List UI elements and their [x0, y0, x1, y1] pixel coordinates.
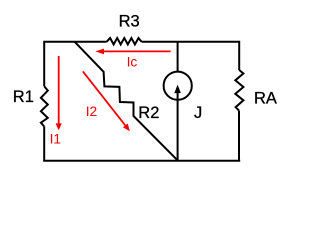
- wire: top left segment: [44, 41, 106, 43]
- arrow I1 (red, pointing down): [58, 56, 60, 124]
- wire: top right segment: [142, 41, 240, 43]
- svg-text:R3: R3: [119, 12, 140, 30]
- arrow I2 (red, diagonal pointing down-right): [83, 71, 125, 125]
- svg-text:R1: R1: [13, 88, 34, 106]
- wire: diagonal upper + resistor R2 staircase + diagonal lower: [75, 42, 178, 161]
- arrow Ic (red, pointing left): [104, 50, 171, 52]
- wire: current source branch (vertical): [177, 42, 179, 161]
- svg-text:I2: I2: [86, 104, 98, 119]
- svg-text:J: J: [194, 104, 202, 122]
- resistor R3 zigzag: [107, 38, 142, 44]
- svg-text:Ic: Ic: [127, 54, 138, 69]
- svg-text:I1: I1: [50, 132, 62, 147]
- svg-text:R2: R2: [138, 104, 159, 122]
- wire: right upper segment: [238, 41, 240, 70]
- current source J inner arrow: [177, 92, 179, 100]
- wire: left lower segment: [43, 127, 45, 161]
- resistor RA zigzag: [235, 70, 243, 111]
- svg-text:RA: RA: [254, 90, 277, 108]
- wire: bottom: [43, 160, 240, 162]
- wire: left upper segment: [43, 41, 45, 86]
- wire: right lower segment: [238, 111, 240, 161]
- resistor R1 zigzag: [41, 86, 48, 126]
- current source J circle: [164, 72, 192, 100]
